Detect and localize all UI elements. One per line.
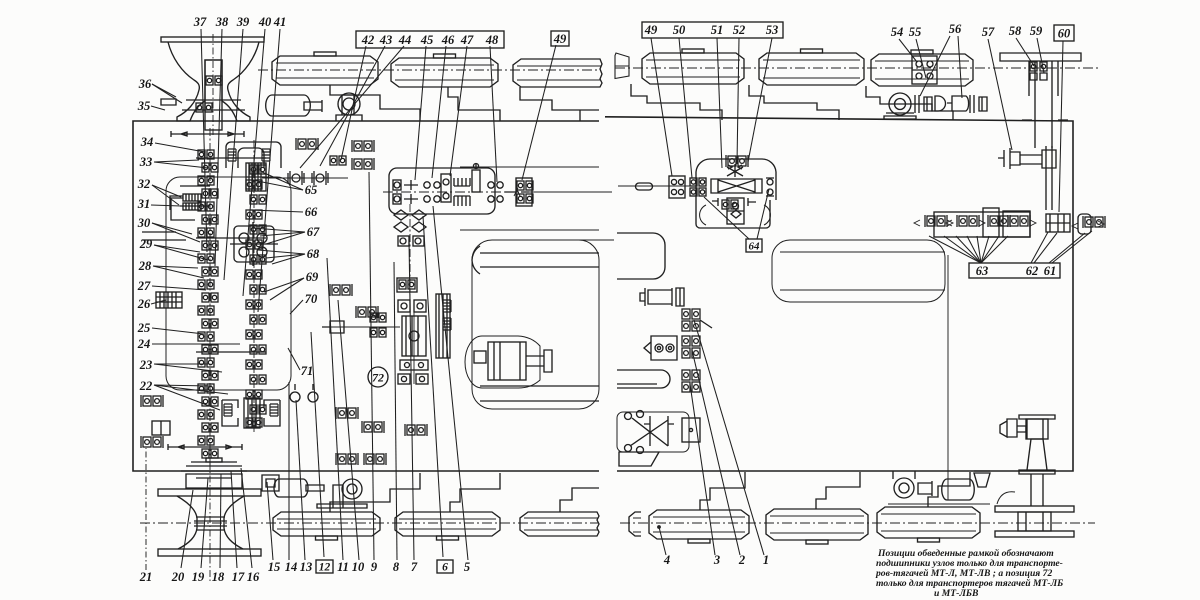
svg-text:2: 2 <box>738 553 745 567</box>
svg-text:54: 54 <box>891 25 904 39</box>
leader 41 <box>258 29 280 312</box>
muffler support stand <box>336 95 362 121</box>
leader 14 <box>288 382 290 560</box>
rear sprocket lower flange <box>158 549 261 556</box>
svg-text:62: 62 <box>1026 264 1039 278</box>
cluster bearings 4 <box>1008 215 1030 227</box>
callout box 42-48 <box>356 31 504 48</box>
leader fan 61 <box>1049 233 1085 263</box>
leader 25 <box>152 328 204 334</box>
svg-text:57: 57 <box>982 25 995 39</box>
svg-text:39: 39 <box>236 15 250 29</box>
rear muffler base <box>317 504 367 508</box>
diff spider cross <box>727 164 743 177</box>
leader 15 <box>267 482 273 560</box>
elbow pipe <box>997 492 1015 504</box>
rear sprocket cap box <box>186 474 242 488</box>
svg-text:28: 28 <box>138 259 152 273</box>
svg-text:48: 48 <box>485 33 499 47</box>
svg-text:25: 25 <box>137 321 151 335</box>
fan drive column <box>1031 474 1043 506</box>
swing arm wheel 4 <box>631 84 722 120</box>
leader 4 <box>659 527 666 555</box>
svg-text:50: 50 <box>673 23 686 37</box>
leader 58 <box>1016 38 1034 66</box>
svg-text:46: 46 <box>441 33 455 47</box>
svg-text:27: 27 <box>137 279 151 293</box>
svg-text:38: 38 <box>215 15 229 29</box>
radiator outline <box>772 240 945 302</box>
clutch plate stack <box>246 163 266 191</box>
svg-text:40: 40 <box>258 15 272 29</box>
bearing sym d <box>141 436 163 448</box>
leader 11 <box>327 258 343 560</box>
svg-text:59: 59 <box>1030 24 1043 38</box>
transfer gear tees <box>404 180 418 204</box>
fuel tank inner top lines <box>472 246 599 274</box>
leader 17 <box>231 471 237 568</box>
leader 23 <box>154 363 208 365</box>
linkage cluster outline <box>617 412 689 452</box>
swing arm wheel 2 <box>448 87 500 121</box>
leader fan 63 <box>929 236 981 263</box>
rear muffler cylinder <box>274 479 308 497</box>
leader 29 <box>154 245 200 252</box>
road wheel 1 top <box>272 56 378 85</box>
road wheel 4 bottom <box>649 510 749 539</box>
svg-text:41: 41 <box>273 15 287 29</box>
selector box hatched <box>183 203 201 210</box>
linkage circles <box>625 413 632 420</box>
svg-text:32: 32 <box>137 177 151 191</box>
fan drive shaft left <box>1000 419 1026 437</box>
callout box 6 <box>437 560 453 573</box>
swing arm wheel 5 <box>749 85 839 120</box>
lower cluster left spring box <box>222 400 238 426</box>
brake springs <box>443 300 451 312</box>
intermediate shaft vertical <box>409 204 411 300</box>
svg-text:15: 15 <box>268 560 281 574</box>
leader 34 <box>155 143 205 152</box>
svg-text:5: 5 <box>464 560 470 574</box>
rear muffler support <box>333 485 343 508</box>
svg-text:37: 37 <box>193 15 207 29</box>
hull outline right section <box>605 117 1073 471</box>
road wheel 3 top <box>513 59 602 87</box>
clutch spring right <box>262 149 270 161</box>
leader 27 <box>152 286 206 290</box>
transfer mid bearings <box>424 182 430 188</box>
svg-text:11: 11 <box>337 560 349 574</box>
rear sprocket centerline <box>209 462 211 583</box>
bearing sym c <box>141 395 163 407</box>
bearing group 1 <box>682 309 700 331</box>
transfer gearbox housing <box>389 168 495 214</box>
cluster inner box right <box>1003 211 1030 237</box>
clutch disc pack lower <box>454 196 470 206</box>
svg-text:18: 18 <box>212 570 225 584</box>
rear idler bottom flange <box>995 531 1074 537</box>
adjuster bolt <box>475 163 477 168</box>
diff input shaft <box>618 185 696 187</box>
leader 64b <box>757 189 769 239</box>
cross shaft to right half <box>532 191 612 193</box>
svg-text:20: 20 <box>171 570 185 584</box>
svg-text:66: 66 <box>305 205 318 219</box>
compressor bracket <box>974 471 990 487</box>
gearbox cross ties <box>180 158 266 352</box>
svg-text:30: 30 <box>137 216 151 230</box>
leader 12 <box>311 332 324 557</box>
cluster inner box tall <box>983 208 999 237</box>
rear sprocket cap on hull <box>181 462 247 471</box>
interior panel line 1 <box>460 166 599 168</box>
clutch spring left <box>228 149 236 161</box>
leader fan 62 <box>1031 232 1048 263</box>
small gear box left <box>152 421 170 435</box>
swing arm wheel 6 <box>866 86 953 120</box>
svg-text:29: 29 <box>139 237 153 251</box>
svg-text:14: 14 <box>285 560 298 574</box>
svg-text:56: 56 <box>949 22 962 36</box>
bearing sym f <box>362 421 384 433</box>
dimension line under sprocket <box>171 131 244 137</box>
cluster bearings 1 <box>925 215 947 227</box>
bracket lines left <box>142 196 195 240</box>
rear sprocket waist rings <box>194 517 227 530</box>
partial wheel bottom left edge <box>629 512 641 536</box>
engine block outline <box>166 177 291 390</box>
control cylinder <box>640 288 672 306</box>
leader 22 <box>154 385 212 386</box>
leader 57 <box>988 39 1012 150</box>
svg-text:8: 8 <box>393 560 400 574</box>
rear muffler circle <box>342 479 362 499</box>
water pump circle <box>889 93 911 115</box>
svg-text:69: 69 <box>306 270 319 284</box>
svg-text:1: 1 <box>763 553 769 567</box>
fan drive gearbox <box>1026 419 1048 439</box>
transfer support plate <box>441 174 451 202</box>
bearing group 3 <box>682 370 700 392</box>
swing arm wheel 5b <box>816 472 860 509</box>
leader 1 <box>694 320 764 555</box>
leader 18 <box>220 474 221 568</box>
leader 26 <box>151 300 166 304</box>
clutch output shaft <box>262 177 348 179</box>
bearing symbol near sprocket base <box>196 103 212 112</box>
svg-text:35: 35 <box>137 99 151 113</box>
leader 55 <box>916 39 926 78</box>
bearing sym b <box>356 306 378 318</box>
wheel hub dot <box>658 526 661 529</box>
svg-text:45: 45 <box>420 33 434 47</box>
leader 28 <box>153 266 198 268</box>
svg-text:49: 49 <box>644 23 658 37</box>
leader 60 <box>1059 41 1063 212</box>
muffler cylinder <box>266 95 311 116</box>
callout box 61-63 <box>969 263 1060 278</box>
fan drive top plate <box>1019 415 1055 419</box>
svg-text:и МТ-ЛБВ: и МТ-ЛБВ <box>934 588 979 599</box>
rear muffler bracket <box>262 475 279 491</box>
pedal wedge <box>619 452 659 466</box>
bearing group 2 <box>682 336 700 358</box>
svg-text:70: 70 <box>305 292 318 306</box>
svg-text:61: 61 <box>1044 264 1057 278</box>
torsion tube mid <box>617 370 670 388</box>
central drive lower bearings <box>398 374 410 384</box>
leader 68 <box>258 250 305 254</box>
leaders 42-48 <box>341 46 366 160</box>
clutch disc pack upper <box>454 178 470 186</box>
callout box 60 <box>1054 25 1074 41</box>
rear muffler rod <box>306 485 324 491</box>
left output shaft <box>330 326 400 328</box>
svg-text:3: 3 <box>713 553 720 567</box>
leader 8 <box>394 262 397 560</box>
radiator inner line <box>780 252 945 290</box>
controls leader target line <box>700 320 712 328</box>
leader 37 <box>201 29 207 252</box>
rear sprocket bell <box>177 496 244 549</box>
brake band unit <box>436 294 450 358</box>
drive sprocket centerline <box>212 34 214 135</box>
svg-text:34: 34 <box>140 135 154 149</box>
front axle centerline right <box>615 67 1100 69</box>
drive sprocket top flange <box>161 37 264 42</box>
callout box 49-53 <box>642 22 783 38</box>
leader 56a <box>920 36 950 96</box>
gearbox input shaft centerline <box>209 128 211 470</box>
leader 13 <box>296 400 305 560</box>
diff top bearing <box>726 155 748 167</box>
muffler mount line <box>265 120 365 122</box>
front axle centerline left <box>258 69 599 71</box>
svg-text:71: 71 <box>301 364 314 378</box>
leader 69 <box>264 278 304 292</box>
leader 19 <box>201 478 208 568</box>
road wheel 5 top <box>759 53 864 85</box>
gearbox lay shaft centerline <box>253 140 255 432</box>
svg-text:23: 23 <box>139 358 153 372</box>
leader 56b <box>958 36 962 98</box>
svg-text:9: 9 <box>371 560 378 574</box>
position 72 circle <box>368 367 388 387</box>
leader 54 <box>899 39 917 62</box>
svg-text:47: 47 <box>460 33 474 47</box>
diff right bearings <box>767 179 773 185</box>
central drive upper bearings <box>398 300 410 312</box>
svg-text:63: 63 <box>976 264 989 278</box>
fuel filter hatched box <box>156 292 182 308</box>
svg-text:16: 16 <box>247 570 260 584</box>
road wheel 2 top <box>391 58 498 87</box>
diff lower housing <box>696 200 770 228</box>
svg-text:51: 51 <box>711 23 724 37</box>
svg-text:72: 72 <box>372 371 384 385</box>
svg-text:53: 53 <box>766 23 779 37</box>
bearing sym g <box>336 453 358 465</box>
cluster bearings 2 <box>957 215 979 227</box>
idler crank bar <box>1000 53 1081 61</box>
right cluster bearings <box>1083 216 1105 228</box>
svg-text:26: 26 <box>137 297 151 311</box>
diff crown bowtie <box>711 179 762 193</box>
leader 3 <box>690 384 715 555</box>
svg-text:52: 52 <box>733 23 746 37</box>
leader 66 <box>250 210 303 212</box>
leader 16 <box>241 468 252 568</box>
cluster bearings 3 <box>988 215 1010 227</box>
transfer left bearings <box>394 182 400 188</box>
partial wheel left edge <box>615 53 629 79</box>
svg-text:43: 43 <box>379 33 393 47</box>
interior panel line 2 <box>460 229 599 231</box>
road wheel 4 top <box>642 53 744 84</box>
leader 40 <box>243 29 265 296</box>
central shaft vertical line <box>413 300 415 384</box>
long vertical member <box>947 255 949 500</box>
lower cluster right spring box <box>264 400 280 426</box>
svg-text:55: 55 <box>909 25 922 39</box>
leader 6 <box>423 216 443 557</box>
right cluster grid <box>1046 214 1070 232</box>
starter relay <box>474 351 486 363</box>
oil pump hatched box <box>183 194 201 201</box>
leader 7 <box>409 240 414 560</box>
bearing symbol above clutch <box>296 138 318 150</box>
idler bearing pair 58-59 <box>1030 62 1047 71</box>
fuel tank inner bottom lines <box>480 386 599 401</box>
svg-text:13: 13 <box>300 560 313 574</box>
road wheel 6 top <box>871 54 973 86</box>
compressor mount <box>893 471 915 479</box>
svg-text:67: 67 <box>307 225 320 239</box>
road wheel 2 bottom <box>395 512 500 536</box>
leader 64a <box>704 197 749 239</box>
leader 20 <box>181 490 193 568</box>
swing arm wheel 1b <box>330 473 420 512</box>
svg-text:7: 7 <box>411 560 418 574</box>
starter shaft lines <box>526 350 552 372</box>
lower cluster gear stack <box>244 398 260 428</box>
svg-text:21: 21 <box>139 570 153 584</box>
fuel tank outline <box>472 240 599 409</box>
leader 33 <box>154 160 199 162</box>
idler crank leg <box>1029 61 1058 148</box>
callout box 64 <box>746 239 762 252</box>
universal joint 2 <box>312 171 328 185</box>
leader 70 <box>290 300 303 314</box>
transfer right bearings <box>488 182 494 188</box>
leader 9 <box>369 172 374 560</box>
hull outline left section <box>133 121 599 471</box>
swing arm wheel 3b <box>560 488 599 512</box>
idler bracket 54-55 <box>912 56 937 84</box>
outboard bearing block <box>516 178 532 206</box>
swing arm wheel 6b <box>928 472 970 507</box>
leader 71 <box>288 348 300 370</box>
leader 5 <box>433 206 468 560</box>
bearing sym i <box>405 424 427 436</box>
svg-text:49: 49 <box>553 32 567 46</box>
cluster housing left <box>934 212 1030 237</box>
rear idler hub <box>1018 512 1051 531</box>
svg-text:19: 19 <box>192 570 205 584</box>
svg-text:68: 68 <box>307 247 320 261</box>
starter motor housing <box>465 336 540 388</box>
compressor cylinder small <box>918 481 932 496</box>
final drive input cross <box>998 148 1020 169</box>
idler leg flange <box>1022 119 1068 121</box>
svg-text:42: 42 <box>361 33 375 47</box>
starter motor body <box>488 342 526 380</box>
leader 31 <box>151 205 181 206</box>
svg-text:65: 65 <box>305 183 318 197</box>
drive sprocket hub <box>205 60 222 130</box>
rear sprocket upper flange <box>158 489 261 496</box>
shaft bearings mid <box>370 313 386 322</box>
drive sprocket bell housing <box>168 42 259 121</box>
rear idler top flange <box>995 506 1074 512</box>
svg-text:4: 4 <box>663 553 670 567</box>
svg-text:58: 58 <box>1009 24 1022 38</box>
muffler end circle <box>338 93 360 115</box>
transfer gearbox shaft centerline <box>383 191 540 193</box>
compressor circle <box>894 478 914 498</box>
diff housing <box>696 159 776 200</box>
compressor big cylinder <box>942 479 975 500</box>
interior panel line 3 <box>545 239 614 241</box>
callout box 12 <box>316 560 333 573</box>
torsion tube upper <box>617 233 665 279</box>
drive sprocket hub bearings <box>206 76 222 85</box>
bearing sym e <box>336 407 358 419</box>
callout box 49 left <box>551 31 569 46</box>
leader 67 <box>252 228 305 232</box>
svg-text:24: 24 <box>137 337 151 351</box>
output shaft w break <box>505 191 529 193</box>
bearing symbol top right of clutch <box>352 140 374 152</box>
bearing sym h <box>364 453 386 465</box>
road wheel 6 bottom <box>877 507 980 538</box>
leader 35 <box>151 106 165 110</box>
pump shaft bearings <box>915 95 932 113</box>
central drive gear stack <box>402 316 426 356</box>
diff bearing pair <box>690 178 697 186</box>
control valve box <box>644 336 677 360</box>
road wheel 1 bottom <box>273 512 380 536</box>
svg-text:64: 64 <box>749 241 761 253</box>
leaders 49-53 <box>651 38 672 176</box>
bearing symbol pair right <box>352 158 374 170</box>
rear axle centerline left <box>140 522 599 524</box>
leader 49 left <box>522 45 556 180</box>
lower idler circles <box>290 392 300 402</box>
road wheel 3 bottom <box>520 512 599 536</box>
central drive lower plate <box>400 360 428 370</box>
diff input rod end <box>636 183 653 190</box>
gearbox gear train left column <box>198 150 214 159</box>
leader 2 <box>692 350 740 555</box>
universal joint 1 <box>288 171 304 185</box>
linkage levers <box>630 416 674 446</box>
leader 39 <box>224 29 243 280</box>
leader 36 <box>152 84 176 97</box>
clutch housing <box>226 142 281 168</box>
svg-text:6: 6 <box>442 562 448 574</box>
